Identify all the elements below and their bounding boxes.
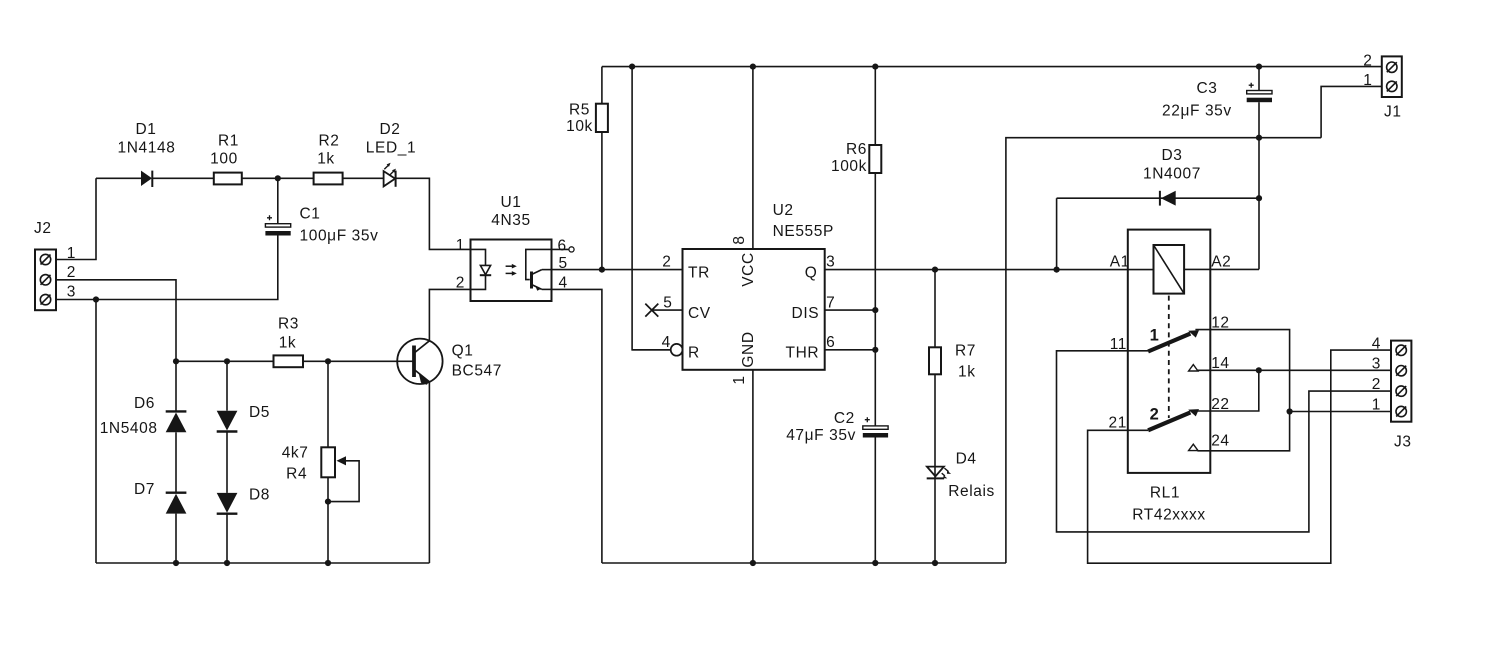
svg-text:1N5408: 1N5408 [100,420,158,437]
U1 coupling arrows [506,264,517,276]
svg-text:R4: R4 [286,466,307,483]
svg-text:VCC: VCC [740,252,757,287]
svg-text:2: 2 [1363,53,1372,70]
node J2 pin3 / ground riser [93,296,99,302]
svg-text:Q: Q [805,265,818,282]
svg-text:1N4148: 1N4148 [118,140,176,157]
U1 pin 6 no-connect stub [552,247,575,252]
capacitor C1 [265,178,378,244]
svg-text:10k: 10k [566,118,593,135]
relay contact arm 2 [1148,405,1199,430]
svg-text:100: 100 [210,151,238,168]
svg-text:D8: D8 [249,487,270,504]
diode D8 [217,487,270,514]
svg-text:1: 1 [731,375,748,384]
timer U2 NE555P box [683,202,834,370]
svg-text:6: 6 [558,238,567,255]
wire middle ground rail [602,562,1006,564]
relay contact point 14 [1189,365,1198,371]
svg-text:100μF 35v: 100μF 35v [300,228,379,245]
wire D3 riser to Q row [1056,198,1058,269]
wire U1 pin2 to Q1 collector [429,289,470,340]
node C1 top [275,175,281,181]
U2 pin 6 THR [786,334,876,362]
J1 screw pin 1 [1387,81,1397,91]
wire 14 junction to relay pin 22 [1195,370,1258,411]
LED D4 [927,451,995,501]
wire J2 pin2 to D6 column [56,280,176,362]
wire R4 to rail [327,477,329,563]
wire J2 pin1 to riser [56,178,96,259]
svg-text:1N4007: 1N4007 [1143,165,1201,182]
node R4 wiper junction [325,499,331,505]
wire relay pin 14 to J3 pin 3 [1197,369,1391,371]
node D3 junction [1256,195,1262,201]
svg-text:R3: R3 [278,316,299,333]
U2 pin 8 VCC [731,67,757,287]
resistor R3 [274,316,304,368]
wire D8 to rail [226,514,228,563]
svg-text:2: 2 [1150,405,1160,423]
resistor R5 [566,67,608,270]
relay mechanical link dashed [1168,296,1170,418]
svg-text:D3: D3 [1161,147,1182,164]
svg-text:D6: D6 [134,395,155,412]
J3 screw pin 3 [1396,366,1406,376]
svg-text:1k: 1k [317,151,335,168]
wire R2 to D2 [343,177,384,179]
wire D3 row [1057,197,1259,199]
diode D3 [1143,147,1201,206]
wire left ground rail [96,562,429,564]
svg-text:5: 5 [663,294,672,311]
relay coil [1154,245,1185,294]
svg-text:4k7: 4k7 [282,445,309,462]
node rail D4 [932,560,938,566]
J2 screw pin 2 [40,275,50,285]
node rail C2 [872,560,878,566]
svg-text:2: 2 [1372,376,1381,393]
capacitor C3 [1162,67,1272,138]
U2 pin 1 GND [731,331,757,563]
node top rail VCC pin [750,64,756,70]
svg-text:R5: R5 [569,102,590,119]
svg-text:8: 8 [731,235,748,244]
svg-text:A1: A1 [1110,254,1130,271]
svg-text:22μF 35v: 22μF 35v [1162,103,1232,120]
J1 screw pin 2 [1387,62,1397,72]
node 12-24 J3 pin1 junction [1287,408,1293,414]
resistor R2 [314,132,343,184]
wire D5 to D8 [226,432,228,493]
wire Q output row [825,269,1154,271]
J3 screw pin 1 [1396,406,1406,416]
resistor R1 [210,132,242,184]
svg-text:1: 1 [1363,72,1372,89]
node top rail C3 [1256,64,1262,70]
svg-text:BC547: BC547 [452,363,502,380]
svg-text:C1: C1 [300,206,321,223]
diode D6 [100,361,187,437]
svg-text:4: 4 [1372,335,1381,352]
node Q row R7 column [932,267,938,273]
svg-text:1: 1 [1150,327,1160,345]
svg-text:4N35: 4N35 [491,212,530,229]
U2 pin 2 TR [662,254,710,282]
J3 screw pin 2 [1396,386,1406,396]
node rail D5 [224,560,230,566]
svg-text:R2: R2 [318,132,339,149]
transistor Q1 [397,339,502,385]
svg-text:1: 1 [456,237,465,254]
connector J2 [34,220,56,310]
wire relay pin 12 to pin 24 [1195,330,1289,451]
relay RL1 box [1128,230,1211,524]
svg-text:C2: C2 [834,410,855,427]
svg-text:47μF 35v: 47μF 35v [786,427,856,444]
node Q row relay riser [1054,267,1060,273]
svg-text:GND: GND [740,331,757,367]
svg-text:THR: THR [786,345,820,362]
wire D1 to R1 [152,177,214,179]
resistor R6 [831,67,881,426]
svg-text:Q1: Q1 [452,343,474,360]
svg-text:1k: 1k [958,363,976,380]
J3 screw pin 4 [1396,345,1406,355]
svg-text:C3: C3 [1197,80,1218,97]
svg-text:3: 3 [1372,356,1381,373]
wire Q1 emitter down [428,382,430,563]
wire D2 to U1 pin1 riser [396,178,471,249]
wire U1 pin5 to TR net [552,269,683,271]
svg-text:21: 21 [1109,415,1127,432]
wire relay pin 21 to J3 pin 4 [1088,350,1391,563]
capacitor C2 [786,410,888,563]
svg-text:24: 24 [1211,433,1229,450]
wire relay pin 11 to J3 pin 2 [1057,351,1392,532]
wire D4 to rail [934,479,936,564]
U2 pin 4 R inverted [632,334,700,362]
wire A2 to C3 column [1184,268,1259,270]
svg-text:1: 1 [1372,397,1381,414]
wire to J1 pin 1 [1321,86,1382,137]
svg-text:3: 3 [826,254,835,271]
wire ground riser left [95,300,97,564]
svg-text:R1: R1 [218,132,239,149]
diode D1 [118,121,176,187]
svg-text:2: 2 [662,254,671,271]
wire D6 to D7 [175,432,177,492]
wire U1 pin4 to ground [552,289,602,563]
svg-text:A2: A2 [1211,254,1231,271]
node R3 row / R4 column [325,358,331,364]
node 14 junction [1256,367,1262,373]
svg-text:100k: 100k [831,158,867,175]
wire top VCC rail [602,66,1382,68]
node rail GND pin [750,560,756,566]
node R3 row / D6 column [173,358,179,364]
node R3 row / D5 column [224,358,230,364]
J2 screw pin 3 [40,294,50,304]
diode D5 [217,361,270,431]
LED D2 [366,121,416,187]
wire C3 column to D3 and A2 [1258,138,1260,270]
diode D7 [134,481,186,514]
svg-text:R: R [688,345,700,362]
svg-text:D5: D5 [249,404,270,421]
svg-text:3: 3 [67,284,76,301]
J2 screw pin 1 [40,254,50,264]
svg-text:D1: D1 [135,121,156,138]
svg-text:Relais: Relais [948,483,995,500]
svg-text:RL1: RL1 [1150,485,1180,502]
node top rail R6 [872,64,878,70]
svg-text:2: 2 [67,264,76,281]
wire R1 to R2 [242,177,314,179]
svg-text:D2: D2 [379,121,400,138]
wire D7 to rail [175,514,177,563]
svg-text:DIS: DIS [792,305,820,322]
node C3 bottom junction [1256,135,1262,141]
U2 pin 7 DIS [792,294,876,322]
svg-text:TR: TR [688,265,710,282]
potentiometer R4 [282,361,359,501]
U1 internal LED [471,249,492,289]
svg-text:U1: U1 [500,194,521,211]
svg-text:NE555P: NE555P [773,223,834,240]
svg-text:7: 7 [826,294,835,311]
U2 pin 5 CV no-connect [645,294,710,322]
resistor R7 [929,270,976,468]
connector J1 [1382,56,1402,120]
wire J3 pin 1 to 12-24 net [1290,411,1391,413]
wire top row to D1 [96,177,141,179]
wire GND to C3 bottom row [1006,138,1321,563]
node top rail reset column [629,64,635,70]
relay contact arm 1 [1148,327,1199,352]
svg-text:R6: R6 [846,141,867,158]
relay contact point 24 [1189,444,1198,450]
U2 pin 3 Q [805,254,836,282]
svg-text:LED_1: LED_1 [366,140,416,157]
svg-text:4: 4 [662,334,671,351]
connector J3 [1391,341,1412,451]
svg-text:J1: J1 [1384,104,1402,121]
node rail R4 [325,560,331,566]
node DIS junction [872,307,878,313]
svg-text:J3: J3 [1394,434,1412,451]
svg-text:J2: J2 [34,220,52,237]
svg-text:U2: U2 [773,202,794,219]
svg-text:6: 6 [826,334,835,351]
svg-text:R7: R7 [955,343,976,360]
wire reset column [632,67,671,350]
svg-text:D4: D4 [956,451,977,468]
op-to-coupler U1 4N35 box [471,194,552,301]
node U1 pin5 / R5 junction [599,267,605,273]
svg-text:1k: 1k [279,335,297,352]
node THR junction [872,347,878,353]
svg-text:RT42xxxx: RT42xxxx [1132,507,1205,524]
svg-text:D7: D7 [134,481,155,498]
node rail D6 [173,560,179,566]
wire J2 pin3 to C1 bottom [56,235,278,300]
wire R3 row [176,360,274,362]
svg-text:CV: CV [688,305,711,322]
U1 phototransistor [526,249,552,290]
